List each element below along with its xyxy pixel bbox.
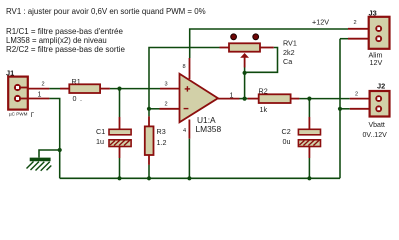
wire op-amp pin4 to rail <box>188 139 190 179</box>
svg-text:1k: 1k <box>260 105 268 114</box>
connector J2 <box>350 81 390 139</box>
wire feedback from RV1 left down to minus input <box>149 48 220 109</box>
svg-text:C1: C1 <box>96 127 105 136</box>
connector J3 <box>348 9 390 67</box>
svg-text:2: 2 <box>165 102 168 108</box>
svg-text:R3: R3 <box>157 127 166 136</box>
node C2 rail junction <box>307 176 311 180</box>
wire R2 to J2 pin2 <box>299 98 349 100</box>
wire C2 branch <box>308 99 310 117</box>
node output junction <box>243 97 247 101</box>
wire junction down to R3 <box>148 109 150 117</box>
svg-text:RV1 : ajuster pour avoir 0,6V: RV1 : ajuster pour avoir 0,6V en sortie … <box>6 7 206 16</box>
node wiper junction <box>243 71 247 75</box>
wire R3 to rail <box>148 165 150 178</box>
svg-text:3: 3 <box>165 82 168 88</box>
svg-text:0V..12V: 0V..12V <box>363 132 388 139</box>
wire output to R2 <box>240 98 248 100</box>
svg-text:12V: 12V <box>370 58 383 67</box>
node C2 tap junction <box>307 97 311 101</box>
node minus input junction <box>147 107 151 111</box>
svg-text:2: 2 <box>354 20 357 26</box>
svg-text:8: 8 <box>183 64 186 70</box>
node J2 pin1 junction <box>338 107 342 111</box>
svg-text:2: 2 <box>355 91 358 97</box>
svg-text:R1/C1 = filtre passe-bas d'ent: R1/C1 = filtre passe-bas d'entrée <box>6 27 123 36</box>
node ground tap junction <box>58 148 62 152</box>
svg-text:1: 1 <box>230 90 234 99</box>
svg-text:Γ: Γ <box>31 112 35 119</box>
capacitor C1 <box>96 117 131 158</box>
svg-text:C2: C2 <box>282 127 291 136</box>
node R3 rail junction <box>147 176 151 180</box>
svg-text:RV1: RV1 <box>283 39 297 48</box>
node pin4 rail junction <box>187 176 191 180</box>
node C1 rail junction <box>117 176 121 180</box>
svg-text:4: 4 <box>183 128 186 134</box>
wire junction to minus pin <box>149 108 160 110</box>
wire RV1 right terminal loop <box>245 48 278 73</box>
svg-text:Ca: Ca <box>283 57 292 66</box>
svg-text:2k2: 2k2 <box>283 48 295 57</box>
svg-text:1: 1 <box>38 92 42 99</box>
wire J1 pin2 to R1 <box>49 88 60 90</box>
resistor R3 <box>145 116 167 164</box>
wire ground bottom rail <box>60 177 340 179</box>
svg-text:0u: 0u <box>283 137 291 146</box>
wire J2 pin1 horizontal <box>340 108 350 110</box>
wire C1 branch <box>119 89 121 117</box>
svg-text:0: 0 <box>73 94 77 103</box>
potentiometer RV1 <box>220 34 297 68</box>
node C1 tap junction <box>117 87 121 91</box>
resistor R2 <box>248 87 300 115</box>
wire R1 to op-amp plus input <box>110 88 160 90</box>
svg-text:µC PWM: µC PWM <box>9 112 28 117</box>
capacitor C2 <box>282 117 321 158</box>
wire C2 to rail <box>308 158 310 178</box>
svg-text:Vbatt: Vbatt <box>369 122 385 129</box>
op-amp U1 <box>160 58 240 139</box>
wire ground vertical J3 pin1 to rail <box>339 39 341 179</box>
connector J1 <box>6 69 49 120</box>
wire ground tap <box>39 150 60 158</box>
ground <box>27 159 52 170</box>
wire wiper to junction <box>244 68 246 73</box>
svg-text:LM358 = ampli(x2) de niveau: LM358 = ampli(x2) de niveau <box>6 36 107 45</box>
svg-text:.: . <box>80 94 82 103</box>
svg-text:J2: J2 <box>377 81 385 90</box>
wire C1 to rail <box>119 158 121 178</box>
wire wiper junction down to output <box>244 73 246 99</box>
wire J3 pin1 horizontal <box>340 38 348 40</box>
wire +12V rail to op-amp pin8 <box>190 29 348 58</box>
svg-text:1u: 1u <box>96 137 104 146</box>
resistor R1 <box>60 77 110 103</box>
svg-text:1.2: 1.2 <box>157 138 167 147</box>
svg-text:LM358: LM358 <box>196 124 222 134</box>
svg-text:+12V: +12V <box>312 17 329 26</box>
svg-text:R2/C2 = filtre passe-bas de so: R2/C2 = filtre passe-bas de sortie <box>6 45 125 54</box>
svg-text:2: 2 <box>42 82 45 88</box>
wire J1 pin1 to ground corner <box>49 99 59 179</box>
